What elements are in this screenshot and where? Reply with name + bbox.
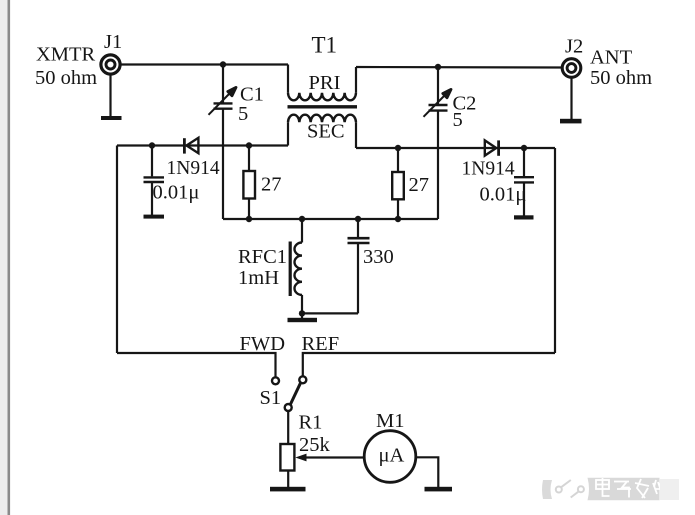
left scan border line [8, 0, 11, 515]
svg-text:0.01μ: 0.01μ [153, 182, 200, 204]
connector J1 [101, 55, 120, 74]
svg-text:T1: T1 [312, 33, 338, 58]
svg-text:J2: J2 [565, 36, 583, 58]
wire: left 27 resistor stubs [248, 146, 250, 172]
wire: right outer vertical [554, 148, 556, 353]
svg-text:1mH: 1mH [238, 267, 279, 289]
inductor RFC1 [290, 242, 302, 297]
wire: right 0.01u cap ground stub [523, 183, 525, 215]
wire: SEC left vertical [287, 122, 289, 145]
capacitor C1 (variable) [209, 87, 237, 114]
capacitor C4 0.01u (right) [514, 177, 534, 182]
wire: PRI right vertical [355, 67, 357, 93]
ground (R1) [270, 487, 306, 492]
node: right 27 top junction [395, 145, 401, 151]
svg-text:5: 5 [238, 103, 248, 125]
ground (J1) [101, 116, 122, 120]
ground (right 0.01u) [514, 215, 534, 219]
wire: RFC1 top stub [301, 219, 303, 243]
wire: right 0.01u cap top stub [523, 148, 525, 176]
S1 FWD contact [272, 377, 279, 384]
svg-text:RFC1: RFC1 [238, 246, 287, 268]
svg-text:S1: S1 [260, 387, 282, 409]
wire: left 0.01u cap ground stub [151, 183, 153, 215]
svg-text:27: 27 [409, 174, 430, 196]
meter M1 [364, 431, 416, 483]
wire: 330 cap top stub [357, 219, 359, 237]
wire: PRI right to J2 (top-right rail) [356, 66, 563, 69]
wire: common bottom node row [223, 218, 438, 220]
switch S1 [272, 376, 306, 411]
wire: J1 to PRI top (top-left rail) [121, 63, 288, 65]
svg-text:SEC: SEC [307, 121, 345, 143]
svg-text:27: 27 [261, 174, 282, 196]
wire: SEC right vertical [355, 122, 357, 148]
svg-text:0.01μ: 0.01μ [480, 184, 527, 206]
node: 330 top junction [355, 216, 361, 222]
transformer T1 PRI winding [288, 93, 356, 100]
svg-text:ANT: ANT [590, 47, 633, 69]
svg-text:PRI: PRI [309, 72, 341, 94]
wire: left outer vertical [116, 146, 118, 354]
svg-text:330: 330 [363, 246, 394, 268]
S1 REF contact [299, 376, 306, 383]
capacitor C5 330 [348, 238, 370, 243]
ground (RFC1) [288, 318, 318, 322]
svg-text:1N914: 1N914 [167, 158, 220, 179]
watermark banner (bottom right) [542, 478, 679, 500]
svg-text:XMTR: XMTR [36, 44, 96, 66]
svg-text:J1: J1 [104, 31, 122, 53]
left scan margin strip [0, 0, 8, 515]
wire: FWD row [117, 353, 276, 377]
wire: right diode row (REF detector net) [356, 147, 555, 149]
svg-text:M1: M1 [376, 410, 404, 432]
svg-text:FWD: FWD [240, 333, 286, 355]
capacitor C3 0.01u (left) [144, 177, 165, 182]
svg-text:REF: REF [302, 333, 340, 355]
diode D2 1N914 (right, cathode right) [485, 140, 499, 155]
ground (M1) [425, 487, 453, 492]
svg-text:50 ohm: 50 ohm [35, 67, 97, 89]
wire: M1 right lead [416, 457, 439, 487]
node: C1 tap on top rail [220, 61, 226, 67]
transformer T1 core [288, 105, 358, 108]
svg-text:50 ohm: 50 ohm [590, 67, 652, 89]
node: left 27 top junction [246, 142, 252, 148]
wire: RFC1 bottom stub to ground node [301, 295, 303, 314]
wire: REF row [303, 353, 555, 376]
R1 wiper arrow [295, 454, 364, 462]
S1 pole contact [285, 404, 292, 411]
ground (left 0.01u) [144, 215, 165, 219]
wire: PRI left vertical [287, 65, 289, 93]
wire: left 0.01u cap top stub [151, 146, 153, 177]
wire: J1 ground stub [109, 75, 111, 117]
wire: C1 branch vertical (top rail to bottom node row) [222, 65, 224, 104]
node: left 27 bottom junction [246, 216, 252, 222]
wire: right 27 resistor stubs [397, 148, 399, 172]
wire: R1 bottom ground stub [287, 471, 289, 488]
svg-text:R1: R1 [299, 412, 323, 434]
resistor R3 27 (right) [392, 172, 404, 199]
wire: left diode row (FWD detector net) [117, 144, 288, 146]
wire: S1 pole to R1 [287, 411, 289, 444]
node: RFC1 top junction [299, 216, 305, 222]
node: right 27 bottom junction [395, 216, 401, 222]
potentiometer R1 25k [280, 444, 294, 471]
node: RFC1/330 ground junction [299, 310, 305, 316]
svg-text:5: 5 [453, 109, 463, 131]
capacitor C2 (variable) [424, 89, 452, 116]
wire: 330 cap bottom stub [357, 244, 359, 314]
wire: RFC1 ground stub [301, 313, 303, 318]
node: C2 tap on top rail [435, 64, 441, 70]
svg-text:25k: 25k [299, 434, 331, 456]
ground (J2) [560, 119, 582, 124]
S1 lever [290, 383, 300, 405]
resistor R2 27 (left) [243, 171, 255, 199]
svg-text:1N914: 1N914 [462, 159, 515, 180]
wire: C2 branch vertical [437, 67, 439, 105]
wire: 330 bottom to RFC1 ground node [302, 312, 358, 314]
node: left 0.01u junction [149, 142, 155, 148]
connector J2 [562, 59, 581, 78]
node: right 0.01u junction [521, 145, 527, 151]
wire: J2 ground stub [570, 78, 572, 120]
transformer T1 SEC winding [288, 115, 356, 122]
svg-text:μA: μA [379, 445, 405, 467]
diode D1 1N914 (left, cathode left) [184, 138, 198, 154]
